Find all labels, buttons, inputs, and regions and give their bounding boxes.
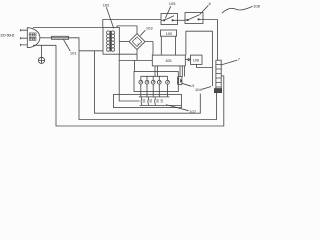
svg-text:100: 100 (166, 32, 172, 36)
lamp L5 (167, 76, 169, 91)
svg-text:6: 6 (209, 2, 211, 6)
svg-text:108: 108 (253, 3, 260, 8)
svg-text:107: 107 (189, 109, 196, 114)
svg-text:103: 103 (146, 25, 153, 30)
leader 103 (140, 30, 145, 35)
battery cell lines (216, 65, 221, 88)
wire plug top to transformer (33, 27, 103, 29)
fuse F (101) (52, 36, 69, 39)
leader 102 (106, 7, 114, 28)
buzzer (5) (178, 77, 182, 85)
svg-text:7: 7 (238, 58, 240, 62)
outer loop wire (56, 45, 224, 126)
plug text cha tou (glyph marks) (29, 37, 32, 40)
cap C1 (141, 97, 143, 106)
control box B (105) (152, 55, 185, 66)
leader 104 (202, 87, 211, 90)
caps box (107 battery row box) (114, 94, 182, 107)
relay switch box S2 (185, 13, 203, 24)
transformer core (109, 31, 112, 52)
wire y54 to transformer corner (119, 53, 137, 55)
battery B (104/7) body (216, 60, 221, 89)
feed stems from box B (155, 66, 158, 76)
transformer secondary winding (111, 31, 114, 51)
transformer primary winding (106, 31, 109, 51)
lamp L3 (152, 76, 154, 91)
wire transformer bottom right down to caps (119, 54, 139, 101)
buzzer stems (180, 66, 185, 77)
cap C4 marks (161, 100, 163, 102)
battery base block (214, 89, 221, 93)
board box (lamp board) (134, 72, 178, 92)
svg-text:106: 106 (193, 58, 199, 62)
box A (timer) (161, 30, 177, 36)
lamp L1 (140, 76, 142, 91)
svg-text:105: 105 (169, 1, 176, 6)
wire 106 bottom to right rail (197, 64, 213, 67)
wire transformer top to bridge top (117, 26, 137, 34)
leader 6 (200, 5, 209, 14)
svg-text:5: 5 (192, 84, 194, 88)
ground earth symbol (38, 57, 44, 63)
wire y60.4 rail into box B (119, 59, 152, 61)
box A stems (161, 36, 175, 55)
wire plug lower (33, 44, 56, 46)
lamp L2 (146, 76, 148, 91)
svg-text:104: 104 (195, 87, 202, 92)
plug P (power plug body) (27, 28, 40, 48)
svg-text:102: 102 (103, 3, 110, 8)
wire S2 to battery top (203, 20, 218, 61)
right frame rail (186, 31, 213, 67)
plug pin stubs (20, 30, 27, 45)
wire bridge bottom down (136, 50, 138, 61)
cap C3 (154, 97, 156, 106)
loop2 wire (79, 51, 217, 120)
box 106 (191, 55, 203, 64)
relay switch box S1 (161, 14, 178, 25)
stub box B to 106 (185, 59, 188, 61)
wire fuse to transformer bottom (69, 38, 104, 51)
leader 101 (64, 40, 71, 51)
leader 107 (166, 105, 189, 111)
bridge rectifier D (103) (129, 34, 145, 50)
wavy leader 108 (222, 6, 253, 13)
hanging wire (104 target) (211, 68, 213, 87)
leader 5 (182, 83, 192, 86)
plug text dian yuan (glyph marks) (29, 33, 32, 36)
svg-text:220~50HZ: 220~50HZ (0, 33, 14, 37)
wire bridge right to box B (145, 42, 153, 56)
leader 105 (165, 6, 171, 18)
caps top bus (139, 96, 170, 98)
lamp bus (141, 75, 168, 77)
leader 7 (221, 60, 237, 65)
wire plug mid to fuse (40, 37, 52, 39)
switch S1 contacts (164, 20, 165, 21)
wire S1 to S2 (178, 19, 186, 21)
svg-text:101: 101 (70, 51, 77, 56)
wire riser to top rail (103, 20, 161, 28)
cap C2 (147, 97, 149, 106)
wire branch to board box (133, 60, 135, 71)
plug pin ticks (19, 29, 21, 46)
caps bottom bus (140, 104, 182, 106)
loop3 wire (94, 51, 200, 113)
stems board to caps bus (141, 92, 168, 97)
svg-text:105: 105 (165, 59, 171, 63)
lamp L4 (158, 76, 160, 91)
ground stem (41, 45, 43, 57)
wire transformer right to bridge left (119, 41, 129, 43)
transformer T (102) box (103, 27, 119, 54)
switch S2 contacts (187, 19, 188, 20)
